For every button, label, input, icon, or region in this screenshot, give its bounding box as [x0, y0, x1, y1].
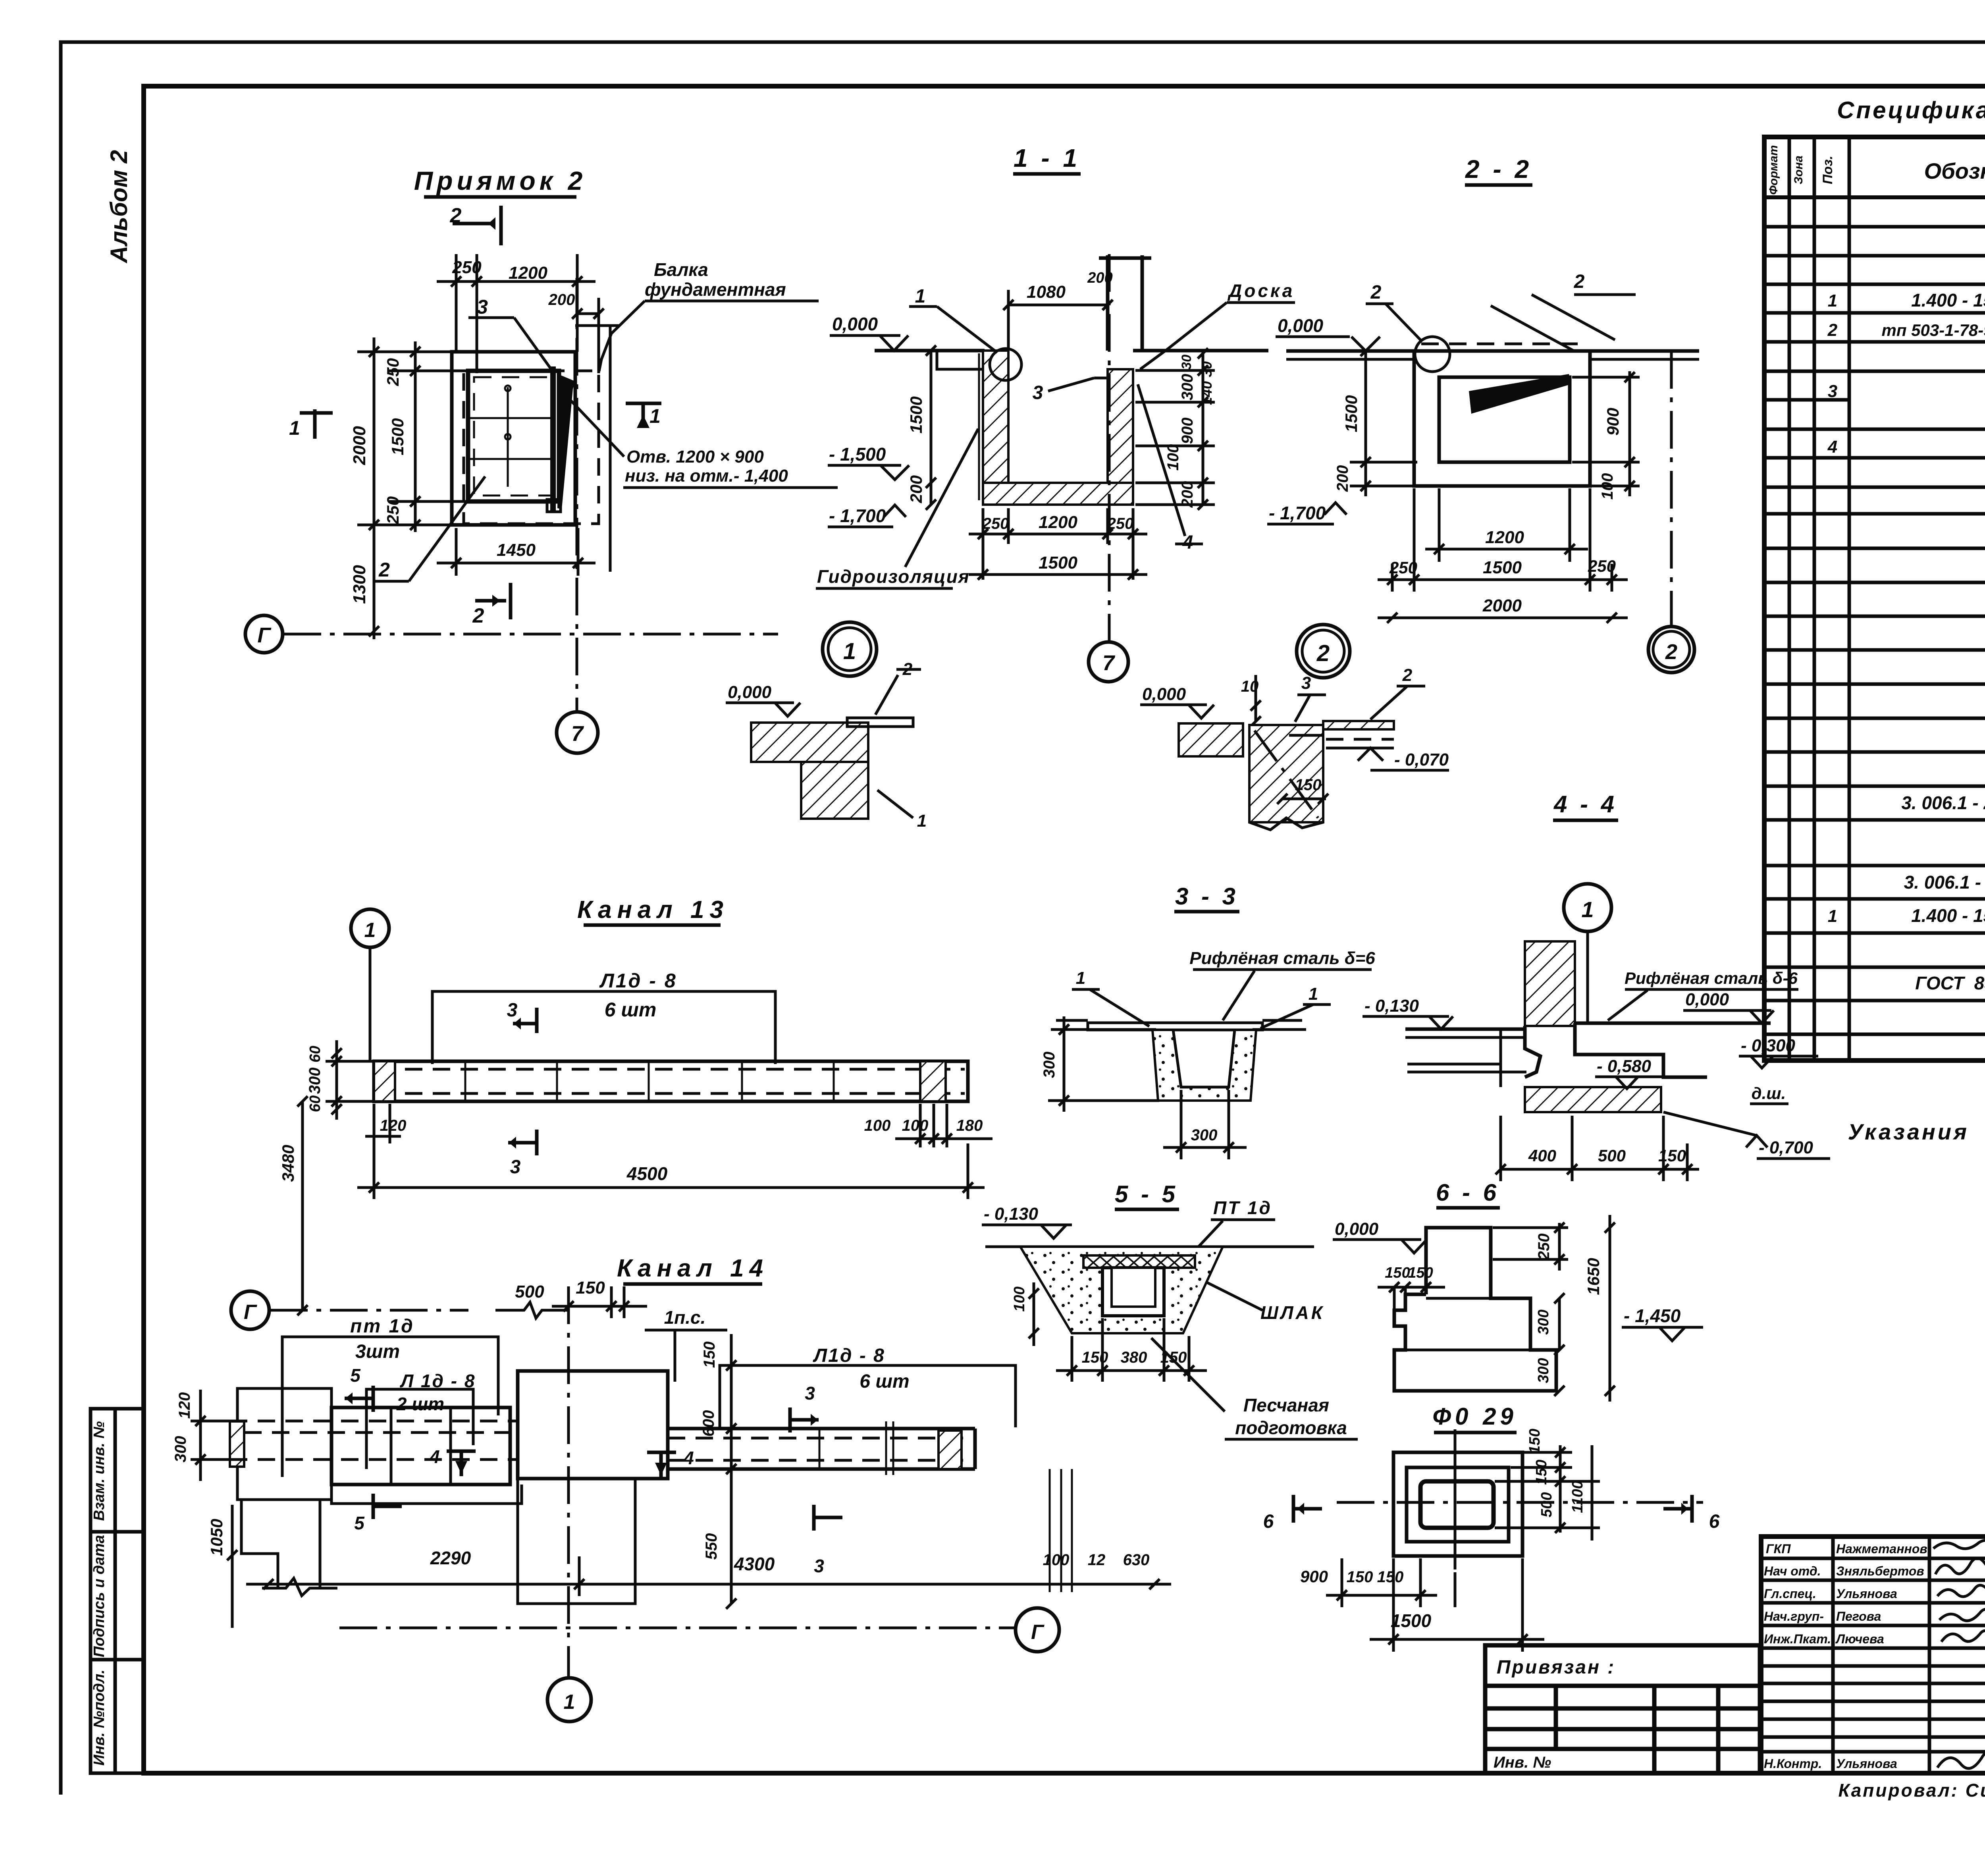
svg-text:Взам. инв. №: Взам. инв. № [91, 1421, 108, 1521]
node2 column notch [1289, 734, 1323, 737]
svg-text:1200: 1200 [1039, 513, 1077, 532]
svg-text:Канал 14: Канал 14 [617, 1255, 769, 1282]
svg-text:3: 3 [510, 1157, 521, 1178]
svg-text:Привязан :: Привязан : [1497, 1657, 1615, 1678]
svg-text:300: 300 [306, 1068, 324, 1094]
svg-text:1: 1 [1581, 897, 1594, 922]
svg-text:550: 550 [703, 1533, 720, 1560]
svg-text:Обозначение: Обозначение [1924, 158, 1985, 183]
6-6 stepped profile [1394, 1228, 1556, 1391]
svg-text:200: 200 [1334, 465, 1351, 492]
kanal14 center block [518, 1371, 668, 1479]
svg-text:300: 300 [1535, 1309, 1552, 1334]
svg-text:300: 300 [1535, 1358, 1552, 1383]
svg-text:ПТ 1д: ПТ 1д [1213, 1197, 1272, 1218]
plan pit inner wall [468, 371, 559, 501]
svg-text:3: 3 [805, 1383, 815, 1404]
svg-text:2 шт: 2 шт [396, 1394, 444, 1414]
axis 7 line [1108, 254, 1111, 641]
svg-text:180: 180 [956, 1117, 983, 1134]
signature rows [1764, 1542, 1985, 1771]
svg-text:- 0,580: - 0,580 [1597, 1057, 1652, 1076]
pit bottom slab hatched [983, 483, 1133, 505]
svg-text:низ. на отм.- 1,400: низ. на отм.- 1,400 [625, 466, 788, 486]
svg-text:1: 1 [1828, 291, 1837, 310]
svg-text:3: 3 [814, 1556, 824, 1576]
svg-text:3. 006.1 - 2.87, вып. 6: 3. 006.1 - 2.87, вып. 6 [1901, 792, 1985, 813]
svg-text:1: 1 [1828, 906, 1837, 926]
svg-text:Балка: Балка [654, 259, 708, 280]
svg-text:Рифлёная сталь δ=6: Рифлёная сталь δ=6 [1189, 949, 1375, 968]
svg-text:Рифлёная сталь δ-6: Рифлёная сталь δ-6 [1625, 969, 1798, 987]
node 1 callout circle [990, 349, 1021, 380]
axis G circle [245, 615, 283, 653]
svg-text:30: 30 [1179, 355, 1194, 370]
svg-text:Л1д - 8: Л1д - 8 [599, 970, 677, 992]
svg-text:400: 400 [1528, 1146, 1556, 1165]
node1 leader 1 [877, 790, 913, 818]
kanal14 axis G line [339, 1627, 1015, 1629]
svg-text:150: 150 [1082, 1349, 1108, 1366]
svg-text:Капировал: Сидорова: Капировал: Сидорова [1838, 1780, 1985, 1801]
svg-text:ГКП: ГКП [1766, 1542, 1791, 1556]
svg-text:- 0,070: - 0,070 [1394, 750, 1449, 769]
node2 column [1249, 725, 1323, 822]
svg-text:подготовка: подготовка [1235, 1417, 1347, 1438]
svg-text:0,000: 0,000 [1142, 684, 1186, 704]
svg-text:6 шт: 6 шт [860, 1371, 909, 1392]
kanal14 right end hatch [939, 1431, 962, 1469]
svg-text:100: 100 [864, 1117, 891, 1134]
svg-text:0,000: 0,000 [728, 683, 772, 702]
svg-text:Г: Г [257, 623, 272, 647]
svg-text:1: 1 [1076, 968, 1085, 988]
svg-text:Указания даны на листе 16: Указания даны на листе 16 [1848, 1119, 1985, 1144]
svg-text:5 - 5: 5 - 5 [1115, 1181, 1178, 1207]
svg-text:0,000: 0,000 [832, 314, 878, 334]
node1 slab [751, 723, 868, 762]
svg-text:Доска: Доска [1227, 280, 1295, 301]
svg-text:- 0,130: - 0,130 [984, 1204, 1039, 1224]
beam above floor [1099, 255, 1151, 351]
node2 break [1249, 818, 1323, 830]
channel dividers [465, 1061, 834, 1101]
left end hatch [374, 1061, 395, 1101]
svg-text:2: 2 [1574, 271, 1585, 292]
svg-text:тп 503-1-78-98- КЖ. Н. 34 .: тп 503-1-78-98- КЖ. Н. 34 . [1882, 321, 1985, 339]
break line top [495, 1302, 569, 1318]
svg-text:1500: 1500 [1342, 395, 1361, 432]
svg-text:380: 380 [1121, 1349, 1147, 1366]
3-3 trough outer [1152, 1030, 1256, 1101]
2-2 axis circle 2 [1648, 627, 1694, 673]
svg-text:1.400 - 15, вып. 1: 1.400 - 15, вып. 1 [1911, 290, 1985, 310]
node 2 circle [1297, 625, 1350, 678]
svg-text:2: 2 [1827, 320, 1838, 340]
svg-text:200: 200 [907, 475, 925, 503]
svg-text:7: 7 [1102, 651, 1116, 675]
svg-text:120: 120 [176, 1392, 193, 1419]
5-5 inner trough [1102, 1268, 1164, 1316]
svg-text:1: 1 [289, 417, 300, 439]
svg-text:1200: 1200 [1485, 528, 1524, 547]
svg-text:Подпись и дата: Подпись и дата [91, 1535, 108, 1657]
svg-text:- 1,700: - 1,700 [1269, 503, 1326, 523]
svg-text:5: 5 [350, 1365, 361, 1386]
kanal14 axis 1 line [567, 1286, 570, 1676]
svg-text:150: 150 [1385, 1265, 1410, 1281]
svg-text:Отв. 1200 × 900: Отв. 1200 × 900 [626, 447, 764, 467]
svg-text:2: 2 [1370, 282, 1382, 303]
node1 leader 2 [875, 675, 898, 715]
svg-text:ГОСТ 8568 - 77 **: ГОСТ 8568 - 77 ** [1915, 973, 1985, 993]
svg-text:3. 006.1 - 2.87, вып. 6: 3. 006.1 - 2.87, вып. 6 [1904, 872, 1985, 893]
svg-text:- 1,500: - 1,500 [829, 444, 886, 465]
svg-text:500: 500 [1598, 1146, 1626, 1165]
kanal14 lower lip [331, 1485, 522, 1504]
svg-text:Л1д - 8: Л1д - 8 [813, 1345, 885, 1366]
svg-text:1: 1 [564, 1691, 575, 1714]
svg-text:150: 150 [701, 1342, 718, 1368]
svg-text:д.ш.: д.ш. [1752, 1084, 1786, 1103]
svg-text:1650: 1650 [1584, 1258, 1603, 1295]
svg-text:Зона: Зона [1792, 156, 1805, 184]
2-2 floor lines [1286, 349, 1415, 353]
svg-text:200: 200 [548, 291, 575, 308]
svg-text:Песчаная: Песчаная [1243, 1395, 1329, 1415]
svg-text:300: 300 [172, 1436, 189, 1463]
waterproofing line [978, 353, 980, 500]
axis1 column hatched [1525, 941, 1575, 1026]
channel body [374, 1061, 968, 1101]
svg-text:7: 7 [571, 722, 584, 746]
svg-text:Формат: Формат [1767, 145, 1780, 195]
svg-text:Нач.груп-: Нач.груп- [1764, 1609, 1824, 1623]
svg-text:3: 3 [1033, 382, 1043, 403]
svg-text:фундаментная: фундаментная [645, 279, 786, 300]
svg-text:12: 12 [1088, 1551, 1106, 1569]
svg-text:0,000: 0,000 [1278, 315, 1324, 336]
svg-text:900: 900 [1300, 1567, 1328, 1586]
svg-text:4: 4 [683, 1448, 694, 1468]
floor line right [1133, 349, 1268, 353]
kanal14 left small rect [237, 1388, 331, 1500]
pit left wall hatched [983, 351, 1008, 483]
svg-text:4 - 4: 4 - 4 [1553, 791, 1617, 817]
svg-text:3: 3 [1301, 673, 1311, 693]
svg-text:Спецификация элементов на марк: Спецификация элементов на марку [1837, 97, 1985, 123]
svg-text:2: 2 [472, 604, 484, 627]
2-2 pit outer [1414, 351, 1590, 486]
axis 7 circle (plan) [557, 712, 598, 753]
svg-text:150: 150 [576, 1278, 605, 1298]
svg-text:Канал 13: Канал 13 [577, 896, 729, 924]
5-5 ground line [985, 1246, 1314, 1248]
floor line left [875, 349, 985, 353]
spec table grid [1764, 137, 1985, 1060]
5-5 plate crosshatch [1083, 1255, 1195, 1268]
2-2 dashed top plate [1421, 343, 1588, 345]
svg-text:Поз.: Поз. [1820, 156, 1835, 184]
svg-text:3: 3 [507, 1000, 518, 1021]
svg-text:4300: 4300 [734, 1554, 775, 1574]
svg-text:1500: 1500 [1483, 558, 1522, 577]
svg-text:150: 150 [1408, 1265, 1433, 1281]
svg-text:1п.с.: 1п.с. [664, 1307, 706, 1328]
kanal14 right strip [668, 1429, 975, 1469]
svg-text:2: 2 [1316, 640, 1330, 666]
svg-text:Инв. №подл.: Инв. №подл. [91, 1670, 108, 1766]
signature table [1761, 1537, 1985, 1773]
svg-text:Лючева: Лючева [1835, 1632, 1884, 1646]
svg-text:4: 4 [1827, 437, 1837, 457]
svg-text:3480: 3480 [279, 1145, 297, 1182]
svg-text:пт 1д: пт 1д [350, 1316, 414, 1337]
kanal13 axis 1 circle [351, 909, 389, 947]
svg-text:- 0,130: - 0,130 [1364, 996, 1419, 1016]
node1 plate [847, 718, 913, 727]
svg-text:ШЛАК: ШЛАК [1260, 1302, 1325, 1323]
5-5 trough cavity [1112, 1268, 1155, 1307]
svg-text:6 - 6: 6 - 6 [1436, 1179, 1499, 1206]
svg-text:5: 5 [354, 1513, 365, 1533]
svg-text:Ульянова: Ульянова [1836, 1756, 1897, 1771]
svg-text:2: 2 [378, 559, 390, 581]
3-3 trough inner cavity [1173, 1030, 1235, 1087]
axis G circle kanal13 [231, 1291, 269, 1329]
svg-text:2000: 2000 [350, 426, 369, 465]
svg-text:Гл.спец.: Гл.спец. [1764, 1587, 1816, 1601]
svg-text:2290: 2290 [430, 1548, 471, 1568]
svg-text:2: 2 [1665, 640, 1677, 664]
kanal14 right strip dividers [731, 1421, 893, 1475]
svg-text:6: 6 [1709, 1511, 1720, 1532]
fo29 middle rect [1407, 1467, 1509, 1542]
svg-text:Г: Г [244, 1301, 257, 1324]
privyazan box [1485, 1645, 1760, 1773]
3-3 floor lines [1051, 1028, 1156, 1031]
svg-text:Ф0 29: Ф0 29 [1432, 1403, 1517, 1430]
svg-text:0,000: 0,000 [1685, 990, 1729, 1009]
svg-text:2 - 2: 2 - 2 [1465, 155, 1532, 183]
svg-text:- 1,700: - 1,700 [829, 505, 886, 526]
node floors [1405, 1028, 1525, 1031]
svg-text:1: 1 [1309, 984, 1318, 1004]
3-3 plate [1088, 1023, 1262, 1030]
angle bar pos3 [550, 366, 556, 512]
2-2 node circle [1415, 337, 1450, 372]
fo29 outer rect [1393, 1452, 1522, 1556]
svg-text:100: 100 [1011, 1286, 1028, 1311]
svg-text:6 шт: 6 шт [605, 999, 657, 1021]
svg-text:3: 3 [1828, 382, 1837, 401]
pit right wall hatched [1108, 369, 1133, 483]
svg-text:500: 500 [515, 1282, 544, 1301]
fo29 centerlines [1454, 1429, 1457, 1569]
svg-text:Ульянова: Ульянова [1836, 1587, 1897, 1601]
pit inner dashed [474, 377, 553, 496]
svg-text:2000: 2000 [1482, 596, 1522, 615]
node2 floor slab [1179, 723, 1243, 756]
svg-text:6: 6 [1263, 1511, 1274, 1532]
foundation beam dashed outline [464, 371, 599, 524]
svg-text:600: 600 [700, 1410, 717, 1437]
svg-text:60: 60 [307, 1046, 324, 1062]
node bottom slab hatched [1525, 1087, 1661, 1112]
signatures squiggles [1933, 1540, 1985, 1768]
svg-text:120: 120 [380, 1117, 407, 1134]
svg-text:2: 2 [1402, 665, 1413, 685]
5-5 trapezoid pit [1020, 1247, 1223, 1333]
right end hatch [920, 1061, 946, 1101]
svg-text:1080: 1080 [1027, 282, 1066, 302]
node 1 circle [823, 622, 877, 676]
svg-text:1100: 1100 [1569, 1481, 1586, 1513]
svg-text:150: 150 [1347, 1568, 1373, 1586]
svg-text:Инж.Пкат.: Инж.Пкат. [1764, 1632, 1831, 1646]
svg-text:250: 250 [1535, 1234, 1553, 1261]
svg-text:1: 1 [843, 638, 856, 664]
left margin cells [91, 1409, 144, 1773]
svg-text:300: 300 [1179, 374, 1196, 401]
svg-text:1: 1 [915, 286, 926, 307]
svg-text:1450: 1450 [497, 540, 536, 560]
right ext line [609, 326, 612, 572]
svg-text:1050: 1050 [207, 1519, 226, 1556]
svg-text:Альбом 2: Альбом 2 [106, 150, 132, 264]
2-2 pit inner [1439, 377, 1570, 462]
svg-text:1200: 1200 [509, 263, 547, 283]
kanal14 dashed strips left [230, 1420, 518, 1423]
node2 plate [1323, 721, 1394, 729]
svg-text:1: 1 [917, 811, 927, 831]
svg-text:4: 4 [429, 1446, 440, 1467]
fo29 inner rect [1420, 1481, 1494, 1528]
svg-text:- 1,450: - 1,450 [1624, 1305, 1681, 1326]
svg-text:150: 150 [1377, 1568, 1404, 1586]
axis 7 circle [1089, 642, 1128, 682]
board wedge [557, 375, 575, 509]
svg-text:100: 100 [902, 1117, 929, 1134]
svg-text:3 - 3: 3 - 3 [1175, 883, 1239, 910]
node2 lines right [1326, 738, 1394, 741]
plan outer wall [452, 352, 575, 525]
svg-text:1 - 1: 1 - 1 [1014, 144, 1080, 172]
svg-text:3: 3 [477, 296, 488, 318]
axis G line kanal13 [270, 1309, 468, 1312]
svg-text:150: 150 [1526, 1429, 1543, 1454]
svg-text:1500: 1500 [1039, 553, 1077, 573]
node step profile [1525, 1026, 1540, 1077]
svg-text:1: 1 [364, 919, 376, 942]
node1 column [801, 762, 868, 819]
svg-text:60: 60 [307, 1095, 324, 1112]
svg-text:Г: Г [1031, 1621, 1045, 1644]
svg-text:Приямок 2: Приямок 2 [414, 166, 587, 195]
svg-text:1500: 1500 [907, 396, 925, 433]
svg-text:Нач отд.: Нач отд. [1764, 1564, 1821, 1578]
svg-text:Н.Контр.: Н.Контр. [1764, 1756, 1822, 1771]
svg-text:0,000: 0,000 [1335, 1219, 1379, 1239]
plan centerline [576, 278, 578, 711]
svg-text:300: 300 [1191, 1126, 1218, 1144]
shield grid lines [470, 417, 553, 419]
svg-text:100: 100 [1043, 1551, 1070, 1569]
svg-text:4500: 4500 [626, 1163, 668, 1184]
svg-text:1: 1 [649, 405, 661, 427]
svg-text:1500: 1500 [1391, 1610, 1432, 1631]
2-2 shield wedge [1469, 374, 1571, 414]
svg-text:Инв. №: Инв. № [1494, 1754, 1551, 1771]
2-2 axis line [1670, 351, 1673, 627]
svg-text:1300: 1300 [350, 565, 369, 604]
2-2 leader lines top [1491, 306, 1574, 351]
kanal14 axis 1 circle [547, 1678, 591, 1722]
svg-text:300: 300 [1041, 1052, 1058, 1078]
floor shelf left [937, 351, 983, 369]
kanal14 axis G circle [1016, 1608, 1059, 1652]
svg-text:- 0,300: - 0,300 [1741, 1036, 1796, 1055]
svg-text:100: 100 [1164, 444, 1182, 471]
svg-text:3шт: 3шт [355, 1341, 400, 1362]
svg-text:900: 900 [1179, 418, 1196, 444]
svg-text:630: 630 [1123, 1551, 1150, 1569]
axis G line [283, 633, 778, 636]
svg-text:Пегова: Пегова [1836, 1609, 1881, 1623]
svg-text:900: 900 [1603, 408, 1622, 436]
kanal14 plate block [331, 1407, 510, 1485]
axis1 node circle [1564, 884, 1611, 931]
svg-text:Нажметаннов: Нажметаннов [1836, 1542, 1927, 1556]
svg-text:Гидроизоляция: Гидроизоляция [817, 566, 970, 587]
svg-text:500: 500 [1538, 1492, 1555, 1517]
top dim line [437, 254, 595, 373]
svg-text:Зняльбертов: Зняльбертов [1836, 1564, 1924, 1578]
svg-text:1.400 - 15, вып. 1: 1.400 - 15, вып. 1 [1911, 905, 1985, 926]
kanal14 bottom-left steps [241, 1500, 278, 1588]
kanal14 left end hatch [230, 1421, 244, 1467]
svg-text:1500: 1500 [388, 418, 407, 455]
